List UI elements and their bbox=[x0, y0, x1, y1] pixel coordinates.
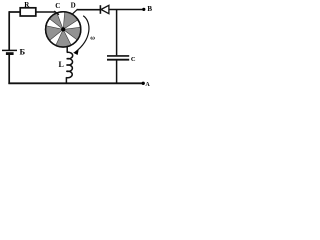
svg-text:ω: ω bbox=[90, 34, 95, 41]
hub bbox=[61, 27, 65, 31]
resistor R bbox=[20, 8, 36, 16]
wire left vertical bbox=[8, 11, 10, 50]
contact D brush bbox=[73, 9, 78, 14]
terminal dot A bbox=[142, 82, 145, 85]
svg-text:D: D bbox=[71, 2, 76, 10]
diode cathode bar bbox=[99, 5, 101, 14]
svg-text:C: C bbox=[55, 2, 60, 10]
svg-text:C: C bbox=[131, 56, 136, 63]
battery Б short thick plate bbox=[6, 52, 14, 55]
wire top-left horizontal bbox=[9, 11, 21, 13]
wire coil to bottom bbox=[65, 77, 67, 84]
battery Б long plate bbox=[2, 49, 17, 51]
wire diode to terminal B bbox=[109, 9, 142, 11]
svg-text:Б: Б bbox=[20, 47, 26, 57]
svg-text:L: L bbox=[59, 60, 64, 69]
chopper wheel disc bbox=[46, 12, 81, 47]
rotation arrow bbox=[75, 16, 89, 53]
svg-text:B: B bbox=[147, 5, 152, 13]
wire left vertical lower bbox=[8, 55, 10, 84]
contact C brush bbox=[54, 11, 59, 15]
svg-text:A: A bbox=[145, 82, 150, 88]
rotation arrowhead bbox=[73, 50, 78, 55]
capacitor C top plate bbox=[107, 55, 129, 57]
capacitor C bottom plate bbox=[107, 59, 129, 61]
wire capacitor branch lower bbox=[116, 60, 118, 84]
wire bottom horizontal bbox=[8, 82, 141, 84]
wire capacitor branch upper bbox=[116, 10, 118, 56]
wire resistor to wheel bbox=[36, 11, 55, 13]
inductor L coil bbox=[66, 52, 72, 78]
diode triangle bbox=[101, 5, 109, 13]
terminal dot B bbox=[142, 8, 145, 11]
wire wheel to coil bbox=[66, 46, 68, 53]
wire wheel to diode bbox=[77, 9, 101, 11]
